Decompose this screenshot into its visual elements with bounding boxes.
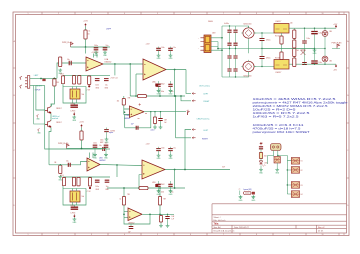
wire <box>218 26 314 77</box>
svg-text:IN OUT: IN OUT <box>275 36 280 38</box>
capacitor C14 <box>93 142 98 152</box>
capacitor C35 <box>260 33 271 49</box>
wire <box>53 78 55 86</box>
wire <box>135 74 137 96</box>
capacitor C33 <box>227 69 231 77</box>
ground <box>94 51 99 58</box>
capacitor C36 <box>260 49 271 67</box>
svg-text:10u: 10u <box>106 45 109 47</box>
diode D2 <box>322 28 328 48</box>
wire <box>49 162 87 165</box>
capacitor C40 <box>311 49 322 65</box>
svg-text:LM337: LM337 <box>276 72 282 74</box>
svg-text:4700u: 4700u <box>266 58 271 60</box>
wire <box>85 27 87 31</box>
junction <box>229 25 236 77</box>
svg-text:Rev: v2: Rev: v2 <box>318 227 324 229</box>
junction <box>174 169 176 171</box>
svg-text:Title:: Title: <box>214 223 220 226</box>
svg-text:K2: K2 <box>301 170 303 172</box>
power label <box>146 144 151 146</box>
relay K1 <box>291 158 302 165</box>
power symbol <box>81 125 83 128</box>
svg-text:MKP: MKP <box>100 142 103 144</box>
svg-text:K1: K1 <box>301 161 303 163</box>
label RV1 value <box>82 94 85 96</box>
wire <box>260 166 262 169</box>
wire <box>142 213 174 215</box>
wire <box>85 47 87 54</box>
wire <box>159 188 161 197</box>
capacitor C11 <box>136 126 138 130</box>
svg-text:+U: +U <box>187 110 189 112</box>
wire <box>282 28 333 64</box>
capacitor C6 <box>104 79 109 90</box>
junction <box>40 78 42 80</box>
junction <box>180 95 182 97</box>
capacitor C20 <box>156 147 165 154</box>
svg-text:input: input <box>109 131 114 134</box>
label term <box>212 33 216 35</box>
wire <box>276 163 278 168</box>
capacitor C9 <box>156 81 164 93</box>
label LEFT <box>204 94 209 96</box>
label RIGHT <box>36 86 43 88</box>
resistor R18 <box>293 40 296 48</box>
junction <box>159 187 161 189</box>
label R19 value <box>297 50 300 52</box>
terminal block J2 <box>198 35 211 53</box>
PWR_FLAG symbol <box>67 144 70 148</box>
label R7b <box>128 98 132 100</box>
svg-text:1uF: 1uF <box>172 219 175 221</box>
wire <box>186 70 191 94</box>
svg-text:RIGHT: RIGHT <box>202 138 209 140</box>
transistor Q2 <box>45 121 51 128</box>
wire <box>123 188 125 197</box>
power symbol +15V <box>85 24 87 27</box>
wire <box>81 128 83 132</box>
svg-text:LM4562: LM4562 <box>105 62 112 64</box>
connector pin <box>192 92 195 94</box>
junction <box>114 63 116 65</box>
power symbol +15V <box>259 142 264 145</box>
capacitor C31 <box>227 49 231 70</box>
resistor R15 <box>280 36 283 44</box>
capacitor C18 <box>95 180 100 191</box>
label U2 <box>152 80 165 85</box>
capacitor C19 <box>105 180 110 191</box>
ground <box>166 224 170 227</box>
svg-text:LM394 sel: LM394 sel <box>52 116 60 118</box>
ground <box>239 195 244 202</box>
svg-text:230V: 230V <box>212 33 216 35</box>
svg-text:5k1: 5k1 <box>297 50 300 52</box>
capacitor C38 <box>302 63 307 65</box>
label note <box>100 140 104 145</box>
svg-text:10: 10 <box>88 34 90 36</box>
resistor R10 <box>62 178 65 186</box>
svg-text:100u: 100u <box>319 33 323 35</box>
label D3 value <box>329 61 332 63</box>
wire <box>63 84 86 103</box>
wire <box>57 63 86 78</box>
title block <box>212 204 347 233</box>
svg-text:4k53: 4k53 <box>60 74 64 76</box>
resistor R13 <box>120 197 126 206</box>
wire <box>100 165 142 166</box>
op-amp U2 <box>143 59 166 80</box>
wire <box>63 186 86 205</box>
ground <box>103 51 108 58</box>
svg-text:1uF/63: 1uF/63 <box>71 213 76 215</box>
junction <box>174 187 176 189</box>
label LEFT <box>34 75 39 77</box>
ground <box>275 168 280 175</box>
power symbol <box>73 112 75 115</box>
wire <box>52 86 55 106</box>
relay K4 <box>291 191 302 198</box>
power label +15V <box>79 122 84 124</box>
label input <box>35 90 42 92</box>
op-amp U1B <box>87 158 100 171</box>
svg-text:100n: 100n <box>161 148 165 150</box>
junction <box>221 37 223 39</box>
ground <box>313 49 318 56</box>
label C37 value <box>307 38 311 40</box>
op-amp power pins <box>91 52 98 58</box>
svg-text:10u: 10u <box>66 161 69 163</box>
resistor R9 <box>59 165 62 173</box>
resistor R11 <box>87 178 92 193</box>
ground <box>58 69 63 76</box>
wire <box>30 85 45 87</box>
svg-text:100n: 100n <box>94 45 98 47</box>
label cap column <box>224 23 229 25</box>
label 5V <box>239 189 241 191</box>
svg-text:10u: 10u <box>105 142 108 144</box>
capacitor C34 <box>233 69 237 77</box>
capacitor C17 <box>72 177 80 186</box>
resistor R1 <box>84 30 90 39</box>
resistor R3 <box>61 76 64 84</box>
capacitor C23 <box>168 181 173 194</box>
capacitor C8 <box>168 47 176 54</box>
power mark <box>187 110 190 115</box>
note DAC <box>244 188 252 191</box>
svg-text:4k53: 4k53 <box>60 175 64 177</box>
wire <box>159 88 161 96</box>
wire <box>130 95 185 97</box>
resistor R21 <box>259 153 266 159</box>
wire <box>124 214 150 224</box>
wire <box>144 111 186 113</box>
junction <box>174 69 176 71</box>
svg-text:LM317: LM317 <box>276 21 282 23</box>
junction <box>54 77 56 79</box>
label LM4562 <box>105 62 112 64</box>
label RIGHT <box>202 138 209 140</box>
svg-text:B250C1500: B250C1500 <box>244 24 252 26</box>
label DB4L <box>208 21 214 23</box>
note line 7 <box>253 124 305 127</box>
capacitor C13 <box>103 147 105 151</box>
label RV3 value <box>82 196 85 198</box>
resistor R2 <box>59 57 62 67</box>
junction <box>159 95 161 97</box>
wire <box>130 224 132 227</box>
wire <box>139 175 142 189</box>
ground <box>153 126 157 129</box>
svg-text:100u: 100u <box>319 62 323 64</box>
label RIGHT <box>204 101 211 103</box>
potentiometer RV3 <box>70 189 80 208</box>
capacitor C3 <box>69 61 71 65</box>
junction <box>81 148 83 150</box>
connector pin <box>192 137 195 139</box>
relay K2 <box>291 167 302 174</box>
junction <box>138 187 140 189</box>
capacitor C5 <box>95 79 100 90</box>
wire <box>36 86 45 111</box>
note line 8 <box>253 127 302 130</box>
svg-text:LSPF: LSPF <box>106 29 112 31</box>
label R1 value <box>89 31 91 33</box>
ground <box>259 168 264 175</box>
resistor R4 <box>86 76 91 92</box>
wire <box>249 26 275 67</box>
PWR_FLAG symbol <box>71 43 74 47</box>
svg-text:CINCH Lemma: CINCH Lemma <box>197 118 211 120</box>
capacitor C4 <box>72 76 80 84</box>
capacitor C22 <box>156 181 164 194</box>
capacitor C29 <box>227 43 231 48</box>
label U6 <box>128 222 135 224</box>
label connector <box>199 86 211 88</box>
note line 3 <box>253 105 329 108</box>
connector J3 <box>271 144 282 156</box>
zobel C2 <box>165 214 169 224</box>
zobel R <box>153 112 156 126</box>
wire <box>243 26 249 77</box>
PWR_FLAG text <box>58 142 69 145</box>
diode D1 <box>301 50 306 55</box>
svg-text:OUT: OUT <box>222 167 225 169</box>
resistor R20 <box>293 58 296 67</box>
junction <box>217 48 219 50</box>
ground <box>157 189 162 196</box>
svg-text:100n: 100n <box>161 47 165 49</box>
regulator U7 <box>274 21 289 33</box>
potentiometer RV1 <box>70 87 80 106</box>
svg-text:+15V -15V: +15V -15V <box>91 52 98 54</box>
svg-text:Id: 1/1: Id: 1/1 <box>318 231 323 233</box>
capacitor C7 <box>156 47 165 54</box>
svg-text:100n: 100n <box>100 140 104 142</box>
capacitor C10 <box>168 81 173 93</box>
svg-text:10u: 10u <box>67 59 70 61</box>
capacitor C2 <box>103 45 109 50</box>
resistor R5 <box>53 79 56 86</box>
capacitor C26 <box>128 227 133 234</box>
wire <box>49 127 51 164</box>
svg-text:potencjometr Rh2 10k= SONET: potencjometr Rh2 10k= SONET <box>253 131 311 134</box>
label C16 value <box>66 161 69 163</box>
svg-text:Date: 2020-02-27: Date: 2020-02-27 <box>234 226 249 229</box>
op-amp power pins <box>90 153 94 159</box>
wire <box>166 69 186 71</box>
label zobel2 values <box>172 216 176 221</box>
svg-text:RIGHT: RIGHT <box>204 101 211 103</box>
svg-text:1uF: 1uF <box>128 231 131 233</box>
ground <box>73 218 78 225</box>
capacitor C16 <box>68 163 70 167</box>
junction <box>287 169 288 185</box>
note line 9 <box>253 131 311 134</box>
svg-text:100n: 100n <box>161 192 165 194</box>
wire <box>185 130 191 170</box>
shield pin top <box>20 76 22 80</box>
svg-text:2N5457: 2N5457 <box>56 122 62 124</box>
junction <box>124 111 126 113</box>
junction <box>123 213 125 215</box>
note line 5 <box>253 112 311 115</box>
svg-text:DB4L: DB4L <box>208 21 214 23</box>
label zobel note <box>151 129 155 131</box>
ground <box>251 195 256 202</box>
ground <box>58 175 63 182</box>
junction <box>324 28 325 65</box>
capacitor C30 <box>233 43 237 48</box>
wire <box>175 96 177 138</box>
svg-text:1uF: 1uF <box>164 122 167 124</box>
PWR_FLAG text <box>62 41 73 44</box>
label R3 value <box>60 74 64 76</box>
junction <box>149 213 151 215</box>
wire <box>129 64 131 96</box>
resistor R6 <box>138 95 147 98</box>
label U5 out <box>222 167 225 169</box>
wire <box>63 86 86 88</box>
junction <box>135 95 137 97</box>
wire <box>174 170 176 189</box>
net label LSPF <box>106 29 112 31</box>
junction <box>277 155 278 156</box>
resistor R14 <box>158 197 161 206</box>
svg-text:kynar [M]: kynar [M] <box>244 188 252 191</box>
resistor R19 <box>293 49 296 57</box>
ground <box>169 89 174 96</box>
svg-text:1N4: 1N4 <box>329 31 332 33</box>
svg-text:B250C1500: B250C1500 <box>244 76 252 78</box>
label C3 value <box>67 59 70 61</box>
op-amp U6 <box>128 208 142 221</box>
wire <box>260 149 262 153</box>
wire <box>124 205 128 217</box>
wire <box>268 156 288 165</box>
capacitor C15 <box>104 142 109 152</box>
ground <box>169 154 174 161</box>
zobel R2 <box>159 214 162 224</box>
svg-text:1k5: 1k5 <box>117 100 120 102</box>
wire <box>211 38 222 50</box>
wire <box>165 169 230 171</box>
wire <box>124 105 130 115</box>
LED D4 <box>259 161 268 167</box>
svg-text:PWR_FLAG: PWR_FLAG <box>62 41 73 44</box>
label LEFT <box>204 130 209 132</box>
connector pin <box>192 128 195 130</box>
ferrite bead FB1 <box>43 79 46 81</box>
ground <box>93 153 98 160</box>
capacitor C39 <box>311 28 322 48</box>
wire <box>63 188 86 190</box>
svg-text:100n: 100n <box>161 91 165 93</box>
svg-text:1uF/63: 1uF/63 <box>71 111 76 113</box>
svg-text:zobel: zobel <box>151 129 155 131</box>
svg-text:1uF/63 = R=5 7.2x2.5: 1uF/63 = R=5 7.2x2.5 <box>253 115 300 118</box>
svg-text:RIGHT: RIGHT <box>36 86 43 88</box>
svg-text:50k: 50k <box>82 94 85 96</box>
label D2 value <box>329 31 332 33</box>
svg-text:10u: 10u <box>105 85 108 87</box>
capacitor C12 <box>104 130 115 133</box>
svg-text:Sheet: /: Sheet: / <box>214 216 221 219</box>
note line 6 <box>253 115 300 118</box>
ground <box>104 153 109 160</box>
wire <box>106 148 110 150</box>
ground <box>157 154 162 161</box>
shield pin bottom <box>20 85 22 89</box>
wire <box>85 39 87 47</box>
capacitor C28 <box>233 26 237 43</box>
resistor R17 <box>293 30 296 39</box>
junction <box>123 187 125 189</box>
svg-text:240: 240 <box>290 23 293 25</box>
wire <box>67 148 107 150</box>
label R10 value <box>60 175 64 177</box>
op-amp U5 <box>142 160 165 179</box>
label U3 <box>124 114 130 120</box>
svg-text:100n: 100n <box>95 85 99 87</box>
ground <box>157 54 162 61</box>
regulator U8 <box>274 60 289 75</box>
wire <box>103 63 143 65</box>
junction <box>85 46 87 48</box>
capacitor C32 <box>233 49 237 70</box>
svg-text:10u: 10u <box>173 47 176 49</box>
ground <box>159 224 163 227</box>
resistor R12 <box>139 187 148 190</box>
svg-text:+15V: +15V <box>79 122 84 124</box>
junction <box>304 28 315 65</box>
power symbol +15V <box>333 24 338 28</box>
wire <box>116 165 118 177</box>
junction <box>184 169 186 171</box>
wire <box>34 86 45 125</box>
wire <box>125 112 151 128</box>
svg-text:1N4: 1N4 <box>329 61 332 63</box>
wire <box>106 128 108 138</box>
svg-text:KiCad E.D.A. kicad 5.1.5: KiCad E.D.A. kicad 5.1.5 <box>214 230 235 233</box>
svg-text:LM4562: LM4562 <box>99 160 106 162</box>
junction <box>59 164 61 166</box>
wire <box>50 104 52 121</box>
wire <box>239 191 241 196</box>
label R17 value <box>290 23 293 25</box>
label connector2 <box>197 118 211 120</box>
wire <box>332 28 336 64</box>
